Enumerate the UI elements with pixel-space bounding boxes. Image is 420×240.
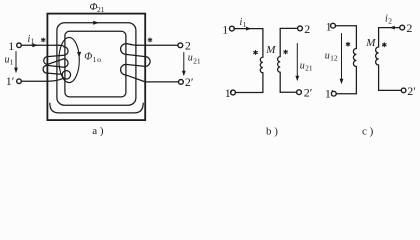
svg-text:u: u	[5, 54, 10, 65]
flux loop phi21	[57, 23, 136, 105]
polarity dot (asterisk) left	[41, 38, 45, 42]
inductor L1	[260, 29, 263, 93]
coil 1 winding (left leg)	[43, 45, 68, 74]
svg-text:b ): b )	[266, 125, 278, 137]
coil 1 bottom turn	[62, 71, 70, 79]
core window rectangle	[65, 31, 126, 97]
svg-text:1: 1	[10, 57, 14, 66]
svg-text:1′: 1′	[6, 74, 15, 88]
terminal 1	[230, 26, 235, 31]
wire 1 to coil	[234, 28, 263, 30]
svg-text:a ): a )	[92, 125, 104, 137]
svg-text:2′: 2′	[185, 75, 194, 89]
inductor L1	[353, 26, 356, 94]
wire 1 to coil	[335, 25, 356, 27]
svg-text:2: 2	[388, 16, 392, 25]
voltage u21 arrow	[296, 44, 298, 77]
polarity asterisk L1c	[346, 42, 350, 46]
svg-text:1′: 1′	[325, 86, 334, 100]
svg-text:1o: 1o	[93, 55, 102, 64]
svg-text:2′: 2′	[407, 84, 416, 98]
svg-text:12: 12	[330, 54, 338, 63]
terminal 1	[17, 43, 22, 48]
terminal 1	[331, 23, 336, 28]
voltage u12 arrow	[341, 34, 343, 80]
polarity asterisk L2	[284, 50, 288, 54]
current i1 arrow	[31, 44, 37, 46]
terminal 1'	[331, 91, 336, 96]
svg-text:u: u	[325, 51, 330, 62]
svg-text:Φ: Φ	[84, 52, 92, 63]
svg-text:1: 1	[8, 39, 14, 53]
wire 1' to coil	[336, 93, 356, 95]
wire coil2 to 2'	[379, 89, 402, 91]
svg-text:2: 2	[185, 38, 191, 52]
leakage flux ellipse phi1o	[59, 37, 79, 82]
svg-text:u: u	[300, 61, 305, 72]
voltage u1 arrow	[15, 52, 17, 69]
current i1 arrow	[246, 27, 252, 31]
svg-text:1′: 1′	[225, 86, 234, 100]
svg-text:2: 2	[406, 21, 412, 35]
svg-text:u: u	[188, 53, 193, 64]
wire coil2 to terminal 2	[280, 27, 297, 29]
inductor L2	[376, 28, 379, 91]
terminal 2	[400, 25, 405, 30]
svg-text:21: 21	[305, 64, 313, 73]
wire from 1'	[21, 80, 47, 82]
svg-text:1: 1	[222, 22, 228, 36]
polarity dot (asterisk) right	[148, 38, 152, 42]
svg-text:21: 21	[97, 5, 105, 14]
svg-text:21: 21	[193, 56, 201, 65]
polarity asterisk L1	[254, 51, 258, 55]
wire 1' to coil	[235, 92, 263, 94]
terminal 1'	[231, 90, 236, 95]
coil 1 exit wire	[48, 78, 64, 81]
wire to terminal 2	[138, 44, 178, 46]
terminal 2	[178, 43, 183, 48]
phi1o arrowhead	[77, 52, 81, 58]
flux phi21 arrowhead	[93, 21, 99, 25]
terminal 1'	[17, 79, 22, 84]
svg-text:1: 1	[326, 19, 332, 33]
svg-text:c ): c )	[362, 125, 374, 137]
polarity asterisk L2c	[383, 43, 387, 47]
wire from 1 to coil 1	[22, 44, 59, 46]
wire coil2 to 2'	[280, 91, 296, 93]
svg-text:M: M	[365, 37, 376, 49]
svg-text:1: 1	[243, 20, 247, 29]
terminal 2	[298, 26, 303, 31]
terminal 2'	[401, 88, 406, 93]
current i2 arrow	[389, 26, 395, 30]
terminal 2'	[297, 90, 302, 95]
extra flux line bottom U	[50, 103, 143, 113]
terminal 2'	[179, 80, 184, 85]
svg-text:2′: 2′	[304, 86, 313, 100]
core outer rectangle	[47, 14, 145, 121]
svg-text:1: 1	[31, 37, 35, 46]
voltage u21 arrow	[183, 53, 185, 72]
svg-text:2: 2	[304, 22, 310, 36]
wire to terminal 2'	[145, 81, 178, 83]
inductor L2	[278, 28, 281, 92]
svg-text:M: M	[265, 44, 276, 56]
coil 2 winding (right leg)	[121, 44, 151, 82]
wire coil2 to terminal 2	[379, 27, 400, 29]
